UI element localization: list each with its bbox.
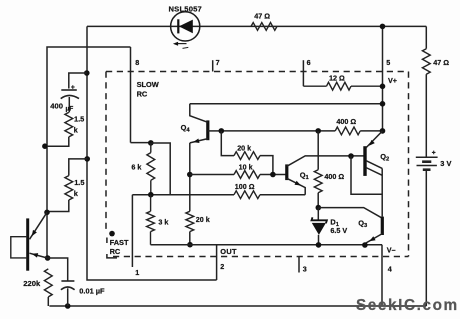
node junction 20k bottom on OUT rail [187, 242, 193, 248]
LED light arrow [176, 43, 187, 45]
transistor Q3 emitter arrowhead [369, 236, 375, 241]
node junction Q2 base / collector loop [348, 153, 354, 159]
svg-text:SLOW: SLOW [137, 80, 159, 89]
capacitor C1 plus sign [71, 85, 75, 89]
FAST RC node dot [109, 231, 115, 237]
LED cathode bar [177, 19, 179, 33]
node junction left rail / 1.5k no.1 bottom [42, 143, 48, 149]
wire C1 bottom to 1.5k [68, 97, 70, 112]
pin 4 wire [381, 245, 383, 306]
node junction base rail / 20k drop [219, 128, 225, 134]
node junction 6k bottom / 3k top [148, 192, 154, 198]
transducer plate bar [26, 218, 29, 270]
svg-text:3: 3 [303, 265, 307, 274]
svg-text:4: 4 [388, 265, 392, 274]
transistor Q4 base bar [206, 120, 209, 140]
wire lower 1.5k bottom jog to rail [47, 200, 69, 212]
wire rail-left x=47 with top jog to pin 8 [47, 47, 131, 258]
svg-text:20 k: 20 k [237, 144, 251, 153]
pin 3 stub [298, 256, 300, 273]
LED triangle [179, 20, 193, 34]
wire Q4 emitter drop x=189.8 [189, 143, 191, 211]
svg-text:FAST: FAST [110, 238, 129, 247]
wire Q3 collector rail [318, 208, 382, 219]
node junction collector rail / V+ line [380, 101, 386, 107]
transducer lower lead [30, 253, 48, 258]
svg-text:Q1: Q1 [300, 171, 310, 182]
wire 100ohm rail left [132, 194, 234, 196]
node junction 400ohm-v bottom [316, 205, 322, 211]
wire Q2 collector-base loop [351, 156, 382, 194]
wire 220k bottom lead [47, 297, 49, 306]
svg-text:5: 5 [386, 58, 390, 67]
node junction lower 1.5k top tap [84, 156, 90, 162]
svg-text:20 k: 20 k [196, 215, 210, 224]
resistor R 1.5k upper body [65, 112, 73, 136]
transistor Q1 emitter arrowhead [295, 181, 301, 186]
node junction Q3 emitter on OUT rail [362, 242, 368, 248]
pin 6 stub [302, 60, 304, 86]
wire 10k left lead [190, 174, 234, 176]
svg-text:NSL5057: NSL5057 [169, 4, 202, 13]
LED NSL5057 circle [171, 12, 200, 41]
battery plus sign [432, 151, 436, 155]
wire Q2 collector drop x=382.2 [381, 168, 383, 216]
node junction rail / transducer lower lead / 220k [45, 255, 51, 261]
node junction 6k top [148, 140, 154, 146]
svg-text:100 Ω: 100 Ω [235, 182, 255, 191]
resistor R 1.5k lower body [65, 176, 73, 200]
node junction 10k left tap [187, 172, 193, 178]
wire Q1 collector riser x=318.2 [317, 131, 319, 170]
capacitor 0.01uF top plate [61, 280, 74, 282]
svg-text:47 Ω: 47 Ω [433, 58, 449, 67]
wire 6k top bypass jog [151, 143, 170, 195]
svg-text:47 Ω: 47 Ω [254, 12, 270, 21]
svg-text:6 k: 6 k [131, 163, 141, 172]
svg-text:3 k: 3 k [158, 217, 168, 226]
wire Q2 base rail y=156.2 [318, 155, 365, 157]
pin 5 wire V+ [382, 26, 384, 131]
wire Q4 collector rail [190, 103, 383, 105]
pin 1 wire [131, 195, 133, 267]
node junction top rail / V+ drop [380, 24, 386, 30]
IC box dashed top edge [106, 71, 409, 73]
IC box dashed left edge [105, 72, 107, 232]
wire 0.01uF bottom lead [67, 288, 69, 306]
wire battery bottom [425, 171, 427, 306]
svg-text:400 Ω: 400 Ω [324, 172, 344, 181]
svg-text:400 Ω: 400 Ω [336, 117, 356, 126]
node junction rail / transducer upper lead [44, 210, 50, 216]
transistor Q2 emitter [366, 131, 383, 148]
node junction 400uF tap at (86.8,73) [84, 70, 90, 76]
svg-text:1.5: 1.5 [74, 178, 84, 187]
wire Q4 base rail y=130.9 [221, 130, 335, 132]
transistor Q3 base bar [381, 217, 384, 235]
node junction 12ohm / V+ line [380, 84, 386, 90]
transducer upper lead arrowhead [32, 230, 37, 236]
resistor 47ohm right body [422, 49, 430, 74]
transistor Q4 base wire [208, 130, 222, 132]
battery B1 plate short 2 [423, 168, 431, 171]
LED light arrow 2 [183, 47, 189, 48]
capacitor 0.01uF curved bottom plate [61, 287, 75, 290]
transistor Q4 emitter [190, 139, 208, 143]
pin 7 stub [212, 60, 214, 71]
node junction base rail / Q1 collector branch [315, 128, 321, 134]
diode D1 zener triangle [312, 223, 326, 235]
wire 10k right lead [260, 174, 287, 176]
IC box dashed bottom edge [113, 256, 409, 258]
wire transducer to 0.01uF cap [47, 258, 67, 281]
transducer frame bracket [11, 237, 27, 258]
IC box dashed right edge [408, 72, 410, 257]
svg-text:Q2: Q2 [380, 152, 389, 163]
svg-text:220k: 220k [23, 279, 41, 288]
wire lower 1.5k top jog [69, 159, 87, 176]
wire 20k vertical bottom lead [189, 232, 191, 245]
node junction D1 on OUT rail [316, 242, 322, 248]
wire 20k-h left riser x=221.3 [221, 131, 234, 156]
wire D1 top lead [317, 208, 319, 220]
svg-text:400: 400 [50, 102, 63, 111]
transistor Q1 collector [287, 156, 318, 166]
resistor 47ohm top body [251, 23, 277, 31]
svg-text:10 k: 10 k [239, 163, 253, 172]
wire 47ohm right to battery [425, 74, 427, 156]
svg-text:3 V: 3 V [440, 159, 451, 168]
node junction 10k-20k-Q1 base [270, 172, 276, 178]
wire right branch top [425, 26, 427, 48]
resistor 400ohm vertical body [314, 170, 322, 193]
resistor 400ohm horizontal body [335, 127, 360, 135]
svg-text:1.5: 1.5 [74, 115, 84, 124]
wire 400ohm-h right lead [360, 130, 382, 132]
wire 20k-h right jog down [260, 156, 273, 175]
svg-text:SeekIC.com: SeekIC.com [356, 297, 459, 314]
transistor Q4 emitter arrowhead [193, 139, 199, 144]
svg-text:RC: RC [110, 247, 121, 256]
transistor Q1 base bar [285, 164, 288, 180]
pin 8 wire [130, 47, 132, 143]
battery B1 plate short 1 [422, 160, 431, 163]
node junction 0.01uF on bottom rail [65, 303, 71, 309]
resistor 3k body [150, 195, 152, 212]
FAST RC corner bracket [106, 238, 108, 244]
wire left drop x=87 from top rail down to bottom-left corner [87, 26, 217, 280]
wire D1 bottom lead [318, 235, 320, 245]
svg-text:Q3: Q3 [358, 219, 368, 230]
transistor Q1 emitter [287, 178, 305, 194]
capacitor C1 400uF curved bottom plate [61, 95, 79, 98]
transistor Q2 collector upper [366, 161, 382, 169]
battery B1 plate long 2 [417, 165, 437, 167]
resistor 10k body [234, 171, 260, 179]
resistor 20k horizontal body [234, 152, 260, 160]
svg-text:6: 6 [307, 58, 311, 67]
svg-text:RC: RC [137, 89, 148, 98]
wire bottom rail y=306 [49, 305, 426, 307]
node junction 400ohm-h / V+ / Q2 emitter [380, 128, 386, 134]
wire 100ohm rail right [260, 194, 305, 196]
capacitor C1 400uF top plate [61, 89, 77, 91]
svg-text:V+: V+ [388, 76, 397, 85]
wire OUT rail y=244.7 [151, 244, 383, 246]
svg-text:V–: V– [387, 245, 396, 254]
svg-text:k: k [74, 189, 79, 198]
transistor Q4 collector [190, 104, 208, 123]
svg-text:7: 7 [216, 58, 220, 67]
transducer upper lead [30, 212, 48, 239]
resistor R 220k body [44, 269, 52, 297]
wire pin2/OUT riser x=216.6 [216, 245, 218, 280]
transducer lower lead arrowhead [32, 253, 38, 258]
transistor Q2 base bar [363, 146, 366, 176]
transistor Q2 collector lower [366, 168, 382, 176]
svg-text:Q4: Q4 [181, 123, 191, 134]
svg-text:0.01 µF: 0.01 µF [79, 286, 105, 295]
svg-text:12 Ω: 12 Ω [329, 74, 345, 83]
resistor 100ohm body [234, 191, 260, 199]
svg-text:2: 2 [220, 262, 224, 271]
svg-text:8: 8 [135, 58, 139, 67]
svg-text:6.5 V: 6.5 V [330, 226, 347, 235]
wire jog to 400uF cap [69, 73, 87, 89]
resistor 20k vertical body [186, 211, 194, 231]
wire top rail y=26.4 (V+ supply from LED to right) [87, 25, 426, 27]
wire 400ohm-v bottom lead [317, 193, 319, 208]
svg-text:k: k [74, 125, 79, 134]
svg-text:1: 1 [135, 268, 139, 277]
wire pin8 jog to 6k top [131, 142, 151, 144]
transistor Q2 emitter arrowhead [369, 140, 375, 146]
wire 1.5k no.1 bottom jog [47, 137, 69, 146]
battery B1 3V plate long 1 [416, 156, 438, 158]
svg-text:µF: µF [66, 106, 74, 113]
transistor Q3 emitter [365, 234, 382, 245]
resistor 12ohm body [303, 85, 326, 87]
diode D1 zener cathode bar [312, 217, 327, 223]
resistor 6k body [150, 143, 152, 153]
svg-text:OUT: OUT [220, 247, 237, 256]
